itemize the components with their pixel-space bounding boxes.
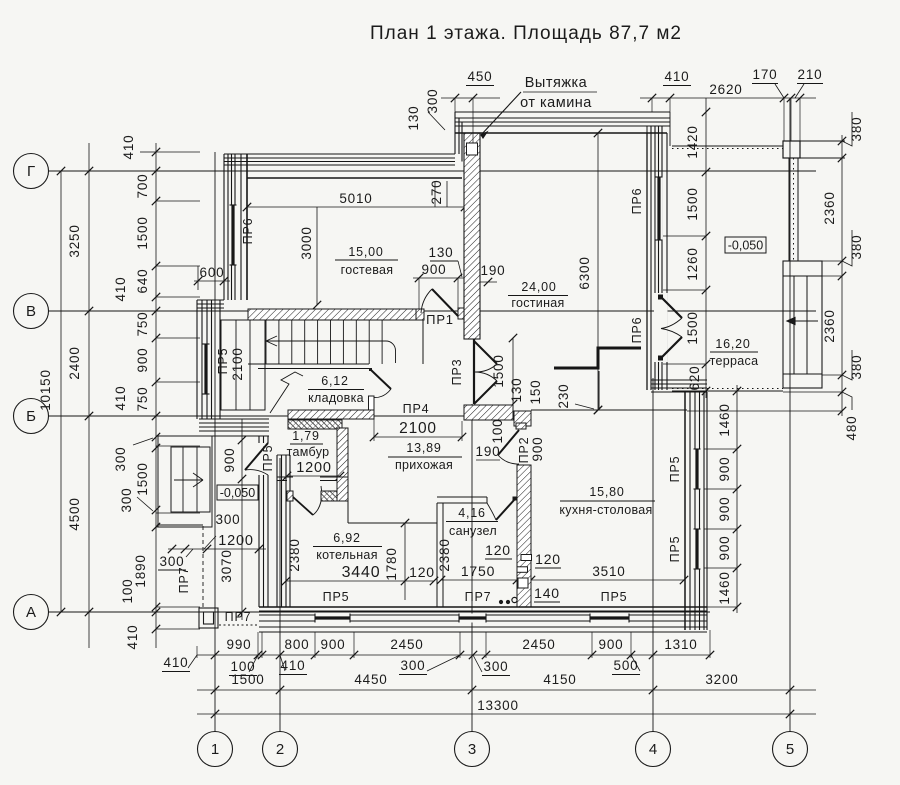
stairs west block	[221, 320, 265, 410]
door PR2 leaf	[498, 430, 519, 455]
svg-text:ПР5: ПР5	[668, 456, 682, 483]
svg-text:410: 410	[113, 386, 128, 411]
vent boxes	[521, 555, 532, 561]
svg-text:2100: 2100	[230, 347, 245, 380]
svg-text:санузел: санузел	[449, 524, 497, 538]
level mark -0,050 porch	[217, 485, 258, 500]
wall: living room east bundle	[650, 126, 652, 390]
svg-text:4450: 4450	[354, 672, 387, 687]
svg-text:-0,050: -0,050	[728, 239, 763, 253]
axis col 2	[263, 732, 298, 767]
wall: hall north-east hatched block	[464, 405, 513, 420]
canopy dashed	[157, 524, 203, 526]
dim 3440 boiler	[286, 580, 434, 582]
svg-text:480: 480	[844, 416, 859, 441]
wall: guest room south hatched	[248, 309, 416, 320]
svg-text:6,12: 6,12	[321, 374, 349, 388]
stairs walking line with arrow	[266, 340, 386, 342]
svg-text:4,16: 4,16	[458, 506, 486, 520]
svg-text:600: 600	[200, 265, 225, 280]
fireplace bench thick mark	[554, 348, 641, 368]
svg-text:3250: 3250	[67, 224, 82, 257]
dim 1500 door PR3	[512, 338, 514, 404]
svg-text:2360: 2360	[822, 191, 837, 224]
svg-text:1750: 1750	[461, 563, 495, 579]
svg-text:410: 410	[281, 658, 306, 673]
svg-text:1460: 1460	[717, 403, 732, 436]
dim 6300 rotated	[597, 133, 599, 410]
svg-text:120: 120	[409, 564, 435, 580]
svg-text:300: 300	[401, 658, 426, 673]
svg-text:6300: 6300	[577, 256, 592, 289]
svg-text:ПР7: ПР7	[177, 567, 191, 594]
svg-text:1310: 1310	[664, 637, 697, 652]
svg-text:450: 450	[468, 69, 493, 84]
bottom extension lines	[257, 632, 259, 658]
terrace steps arrow	[787, 320, 818, 322]
svg-text:2400: 2400	[67, 346, 82, 379]
dots near PR7	[499, 600, 503, 604]
svg-text:3200: 3200	[705, 672, 738, 687]
svg-text:100: 100	[490, 419, 505, 444]
window PR6 west guest	[230, 205, 237, 265]
door PR6 to terrace (double)	[654, 293, 668, 362]
svg-text:270: 270	[429, 180, 444, 205]
svg-text:1500: 1500	[231, 672, 264, 687]
wall: central hatched column	[517, 465, 531, 607]
svg-text:1,79: 1,79	[292, 429, 320, 443]
terrace east rail	[788, 158, 790, 261]
svg-text:640: 640	[135, 269, 150, 294]
svg-text:-0,050: -0,050	[220, 486, 255, 500]
svg-text:1460: 1460	[717, 571, 732, 604]
wall: boiler notch	[347, 480, 349, 523]
svg-text:500: 500	[614, 658, 639, 673]
svg-text:130: 130	[509, 378, 524, 403]
wall: boiler hatched L	[337, 477, 348, 501]
svg-text:гостевая: гостевая	[341, 263, 394, 277]
axis row В	[14, 294, 49, 329]
window bottom 3 PR5	[590, 614, 629, 623]
wall: step hatched block	[514, 411, 531, 426]
wall: tambour west jog bundle	[199, 418, 269, 420]
svg-text:120: 120	[535, 551, 561, 567]
svg-text:410: 410	[665, 69, 690, 84]
svg-text:ПР7: ПР7	[225, 610, 252, 624]
window PR5 kitchen east 2	[694, 529, 701, 569]
axis row Б	[14, 399, 49, 434]
dim 600 step	[194, 280, 230, 282]
wall: west wall below В bundle	[196, 300, 198, 419]
svg-text:900: 900	[717, 536, 732, 561]
axis col 3	[455, 732, 490, 767]
dim 1750 wc	[441, 579, 517, 581]
dim col 3250 2400 4500	[88, 143, 90, 648]
svg-text:Вытяжка: Вытяжка	[525, 75, 588, 91]
axis row А	[14, 595, 49, 630]
wall: guest room north bundle	[224, 153, 455, 155]
door PR3 double from hall	[473, 339, 475, 404]
window PR5 kitchen east 1	[694, 449, 701, 489]
svg-text:В: В	[26, 303, 36, 320]
window PR5 stair west	[203, 344, 210, 394]
svg-text:210: 210	[798, 67, 823, 82]
wall: tambour north hatched	[288, 410, 374, 419]
svg-text:380: 380	[849, 355, 864, 380]
svg-text:1200: 1200	[296, 460, 331, 476]
stairs break line	[270, 372, 303, 413]
terrace north dotted edge	[672, 145, 783, 147]
svg-text:5010: 5010	[339, 191, 372, 206]
dim col 1420 1500 1260 1500 620	[705, 98, 707, 398]
svg-text:800: 800	[285, 637, 310, 652]
dim col 10150	[60, 171, 62, 612]
dim row A bottom	[197, 654, 710, 656]
svg-text:100: 100	[120, 579, 135, 604]
door wc	[513, 497, 517, 501]
wall: living room north bundle	[455, 111, 670, 113]
svg-text:2620: 2620	[709, 82, 742, 97]
svg-text:1890: 1890	[133, 554, 148, 587]
svg-text:190: 190	[481, 263, 506, 278]
svg-text:1: 1	[211, 741, 219, 758]
svg-text:ПР3: ПР3	[450, 359, 464, 386]
wall: kitchen east bundle	[689, 392, 691, 630]
tambour texture band	[288, 420, 342, 429]
svg-text:900: 900	[717, 457, 732, 482]
svg-text:230: 230	[556, 384, 571, 409]
window bottom 2 PR7	[459, 614, 486, 623]
svg-text:ПР6: ПР6	[630, 317, 644, 344]
dim extension lines left	[156, 151, 200, 153]
svg-text:2: 2	[276, 741, 284, 758]
svg-text:тамбур: тамбур	[287, 445, 330, 459]
dim 3000 rotated guest height	[316, 207, 318, 305]
svg-text:15,00: 15,00	[348, 245, 383, 259]
svg-text:410: 410	[121, 135, 136, 160]
wall: boiler west bundle	[276, 455, 278, 607]
door hinge block boiler	[287, 491, 293, 501]
svg-text:750: 750	[135, 312, 150, 337]
svg-text:Б: Б	[26, 408, 36, 425]
svg-text:380: 380	[849, 235, 864, 260]
svg-text:3: 3	[468, 741, 476, 758]
svg-text:300: 300	[216, 512, 241, 527]
svg-text:гостиная: гостиная	[511, 296, 564, 310]
svg-text:15,80: 15,80	[589, 485, 624, 499]
svg-text:900: 900	[599, 637, 624, 652]
svg-text:ПР5: ПР5	[668, 536, 682, 563]
axis col 4	[636, 732, 671, 767]
svg-text:План 1 этажа. Площадь 87,7 м2: План 1 этажа. Площадь 87,7 м2	[370, 23, 682, 44]
wall: pantry east + door	[369, 396, 375, 410]
svg-text:3510: 3510	[592, 564, 625, 579]
wall: south bundle	[259, 610, 707, 612]
svg-text:А: А	[26, 604, 36, 621]
wall: kitchen north line	[531, 409, 687, 411]
dim 1200 tambour	[287, 475, 340, 477]
svg-text:990: 990	[227, 637, 252, 652]
wall: house NE corner drop	[669, 112, 671, 146]
leader вытяжка от камина	[481, 92, 521, 135]
svg-text:терраса: терраса	[710, 354, 759, 368]
svg-text:140: 140	[534, 585, 560, 601]
svg-text:900: 900	[422, 262, 447, 277]
svg-text:прихожая: прихожая	[395, 458, 453, 472]
dim col terrace right 380 2360	[841, 135, 843, 416]
door PR2 hinge blocks	[516, 423, 526, 429]
svg-text:1500: 1500	[685, 311, 700, 344]
svg-text:ПР4: ПР4	[403, 402, 430, 416]
dim 270 rotated	[434, 181, 436, 207]
svg-text:1500: 1500	[135, 462, 150, 495]
svg-text:300: 300	[425, 89, 440, 114]
svg-text:120: 120	[485, 542, 511, 558]
svg-text:170: 170	[753, 67, 778, 82]
svg-text:130: 130	[406, 106, 421, 131]
wall: chimney neck	[454, 112, 456, 154]
porch post PR7 box	[199, 608, 218, 628]
svg-text:1780: 1780	[384, 547, 399, 580]
dim 300 1200 3070 column	[241, 419, 243, 620]
svg-text:13,89: 13,89	[406, 441, 441, 455]
svg-text:ПР5: ПР5	[323, 590, 350, 604]
svg-text:900: 900	[717, 497, 732, 522]
wall: under-terrace step bundle	[651, 379, 707, 381]
svg-text:1200: 1200	[218, 533, 253, 549]
svg-text:410: 410	[164, 655, 189, 670]
axis row Г	[14, 154, 49, 189]
svg-text:300: 300	[119, 488, 134, 513]
svg-text:ПР7: ПР7	[465, 590, 492, 604]
dim 3510 kitchen	[531, 579, 684, 581]
dim col left small	[155, 143, 157, 648]
svg-text:3000: 3000	[299, 226, 314, 259]
svg-text:150: 150	[528, 380, 543, 405]
svg-text:380: 380	[849, 117, 864, 142]
dim col kitchen right 1460 900s	[736, 385, 738, 613]
svg-text:2380: 2380	[287, 538, 302, 571]
svg-text:ПР6: ПР6	[241, 218, 255, 245]
svg-text:2380: 2380	[437, 538, 452, 571]
svg-text:1420: 1420	[685, 125, 700, 158]
stairs main flight	[248, 319, 423, 321]
window PR6 east living	[656, 177, 663, 240]
door PR5 tambour entry	[245, 443, 268, 470]
dim 2100 PR4	[374, 436, 462, 438]
svg-text:Г: Г	[27, 163, 35, 180]
level mark -0,050 terrace	[725, 237, 766, 253]
svg-text:2450: 2450	[522, 637, 555, 652]
svg-text:620: 620	[687, 366, 702, 391]
svg-text:ПР6: ПР6	[630, 188, 644, 215]
svg-text:700: 700	[135, 174, 150, 199]
svg-text:кухня-столовая: кухня-столовая	[559, 503, 652, 517]
axis col 1	[198, 732, 233, 767]
svg-text:900: 900	[222, 448, 237, 473]
svg-text:190: 190	[476, 444, 501, 459]
dim row B bottom	[197, 689, 816, 691]
wall: wc west	[436, 503, 438, 607]
svg-text:1260: 1260	[685, 247, 700, 280]
svg-text:900: 900	[135, 348, 150, 373]
svg-text:1500: 1500	[491, 354, 506, 387]
svg-text:410: 410	[113, 277, 128, 302]
porch arrow	[174, 479, 203, 481]
svg-text:кладовка: кладовка	[308, 391, 364, 405]
vent box	[467, 143, 478, 155]
svg-text:5: 5	[786, 741, 794, 758]
wall: west step at row В	[197, 299, 224, 301]
svg-text:1500: 1500	[685, 187, 700, 220]
svg-text:900: 900	[530, 437, 545, 462]
svg-text:от камина: от камина	[520, 95, 592, 111]
dim row C total 13300	[197, 713, 816, 715]
wall: tambour/west wall bundle south	[258, 436, 260, 443]
svg-text:300: 300	[113, 447, 128, 472]
window bottom 1 PR5	[315, 614, 350, 623]
svg-text:2450: 2450	[390, 637, 423, 652]
wall: tambour east hatched column	[337, 428, 348, 501]
svg-text:1500: 1500	[135, 216, 150, 249]
svg-text:ПР5: ПР5	[216, 348, 230, 375]
svg-text:16,20: 16,20	[715, 337, 750, 351]
door PR1	[416, 309, 424, 320]
svg-text:300: 300	[160, 554, 185, 569]
porch steps	[158, 436, 212, 527]
svg-text:ПР1: ПР1	[426, 312, 454, 327]
svg-text:ПР2: ПР2	[517, 437, 531, 464]
svg-text:котельная: котельная	[316, 548, 378, 562]
svg-text:750: 750	[135, 387, 150, 412]
svg-text:3440: 3440	[342, 564, 381, 581]
svg-text:3070: 3070	[219, 549, 234, 582]
svg-text:4: 4	[649, 741, 657, 758]
axis col 5	[773, 732, 808, 767]
svg-text:900: 900	[321, 637, 346, 652]
terrace south dotted edge	[672, 390, 783, 392]
svg-text:410: 410	[125, 625, 140, 650]
wall: chimney column hatched	[464, 133, 480, 339]
svg-text:ПР5: ПР5	[601, 590, 628, 604]
dim 5010 guest width	[247, 206, 465, 208]
wall: boiler north + door	[277, 476, 293, 478]
svg-text:4500: 4500	[67, 497, 82, 530]
terrace north-east post	[783, 141, 800, 158]
svg-text:130: 130	[429, 245, 454, 260]
svg-text:13300: 13300	[477, 698, 519, 713]
svg-text:10150: 10150	[38, 369, 53, 411]
svg-text:24,00: 24,00	[521, 280, 556, 294]
svg-text:4150: 4150	[543, 672, 576, 687]
svg-text:2360: 2360	[822, 309, 837, 342]
terrace steps east	[783, 261, 822, 388]
dim 1780 rotated	[404, 523, 406, 600]
svg-text:6,92: 6,92	[333, 531, 361, 545]
wall: guest room west bundle	[223, 154, 225, 300]
wall: wc north + door	[437, 496, 487, 498]
svg-text:2100: 2100	[399, 420, 437, 437]
svg-text:300: 300	[484, 659, 509, 674]
svg-text:ПР5: ПР5	[261, 445, 275, 472]
